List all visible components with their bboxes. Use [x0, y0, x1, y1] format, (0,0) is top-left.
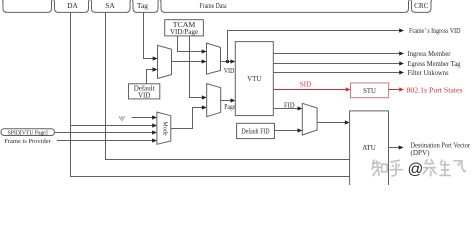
SPID[VTU Page] box: [1, 129, 54, 137]
svg-text:Egress Member Tag: Egress Member Tag: [408, 60, 461, 68]
wire DA down and along bottom into ATU: [71, 12, 350, 176]
wire SPID to Mode input 3: [54, 132, 153, 134]
svg-text:VTU: VTU: [247, 75, 261, 83]
wire VID into VTU with junction: [221, 61, 232, 63]
wire mux M1 output to mux M2 input 2: [172, 61, 203, 63]
default VID box: [129, 84, 160, 100]
svg-text:CRC: CRC: [414, 2, 429, 10]
mux M5 (FID select): [302, 103, 317, 135]
TCAM VID/Page box: [165, 20, 204, 36]
mux M4 (Mode): [157, 112, 171, 144]
wire Frame is Provider to Mode input 4: [57, 140, 153, 142]
wire Tag down to VID mux input 1: [144, 12, 154, 58]
wire STU to 802.1s Port States (red): [389, 89, 400, 91]
wire SID (red) VTU to STU: [273, 89, 346, 91]
wire junction up to Frame's Ingress VID: [228, 31, 401, 62]
wire SA down and along into ATU: [106, 12, 350, 159]
mux M2 (VID select): [207, 43, 221, 74]
watermark 知乎 @养生飞: [372, 159, 466, 176]
glyph yang: [423, 159, 437, 176]
VTU box: [235, 42, 273, 116]
svg-text:Ingress Member: Ingress Member: [408, 50, 452, 58]
wire TCAM VID to VID select mux input 1: [178, 36, 203, 52]
frame field CRC: [410, 0, 433, 12]
wire TCAM Page to Page mux input 1: [190, 36, 203, 98]
svg-text:Filter Unkowns: Filter Unkowns: [408, 69, 449, 77]
frame field box (leading, blank): [1, 0, 53, 12]
wire VTU to Ingress Member: [273, 53, 400, 55]
wire FID mux output to ATU: [317, 122, 346, 124]
STU box (red): [351, 83, 389, 98]
svg-text:‘0’: ‘0’: [118, 115, 126, 122]
frame field Tag: [131, 0, 160, 12]
svg-text:STU: STU: [363, 88, 376, 95]
svg-text:VID: VID: [224, 67, 235, 75]
svg-text:Page: Page: [224, 103, 235, 111]
svg-text:Default FID: Default FID: [242, 128, 270, 136]
svg-text:DA: DA: [67, 1, 78, 10]
svg-text:Frame is Provider: Frame is Provider: [4, 138, 51, 145]
glyph zhi: [372, 160, 381, 177]
frame field Frame Data: [159, 0, 410, 12]
wire Mode output up to Page mux input 2: [171, 108, 203, 129]
ATU box: [350, 111, 389, 187]
glyph sheng: [439, 160, 450, 176]
svg-text:@: @: [408, 161, 424, 178]
svg-text:SPID[VTU Page]: SPID[VTU Page]: [8, 130, 48, 136]
svg-text:VID: VID: [138, 92, 150, 100]
wire VTU to Filter Unkowns: [273, 72, 400, 74]
glyph hu: [389, 160, 403, 176]
svg-text:ATU: ATU: [362, 144, 376, 152]
svg-text:Frame Data: Frame Data: [200, 2, 228, 10]
svg-text:Frame’ s Ingress VID: Frame’ s Ingress VID: [409, 27, 461, 35]
wire Default FID to FID mux input 2: [275, 130, 299, 132]
mux M1 (Tag / Default VID): [158, 45, 172, 78]
svg-text:802.1s Port States: 802.1s Port States: [407, 87, 463, 95]
wire '0' to Mode input 1: [132, 117, 154, 119]
wire ATU to DPV: [389, 147, 400, 149]
wire VTU FID to FID mux input 1: [273, 108, 298, 110]
svg-text:VID/Page: VID/Page: [170, 28, 198, 36]
svg-text:Destination Port Vector: Destination Port Vector: [411, 143, 471, 150]
frame field DA: [53, 0, 91, 12]
glyph fei: [453, 161, 466, 172]
Default FID box: [237, 123, 275, 138]
wire VTU to Egress Member Tag: [273, 63, 400, 65]
svg-text:FID: FID: [284, 101, 295, 109]
wire Page into VTU: [221, 100, 232, 102]
node VID junction: [226, 60, 229, 63]
frame field SA: [90, 0, 132, 12]
svg-text:Tag: Tag: [137, 1, 148, 10]
mux M3 (Page select): [207, 84, 221, 117]
wire DA branch to Mode mux input 2: [71, 125, 154, 127]
wire Default VID up to mux M1 input 2: [147, 70, 154, 84]
svg-text:(DPV): (DPV): [411, 150, 430, 157]
svg-text:SA: SA: [105, 1, 115, 10]
svg-text:SID: SID: [300, 80, 311, 88]
svg-text:Mode: Mode: [162, 121, 169, 136]
